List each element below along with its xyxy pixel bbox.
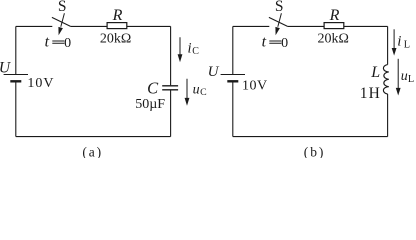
resistor R (b) body xyxy=(324,23,344,29)
svg-text:t: t xyxy=(45,34,50,51)
svg-text:i: i xyxy=(397,34,401,50)
svg-text:L: L xyxy=(370,64,380,81)
wire b: top middle segment xyxy=(287,25,324,27)
svg-text:t: t xyxy=(262,34,267,51)
svg-text:L: L xyxy=(404,40,410,51)
resistor R (a) body xyxy=(107,23,127,29)
svg-text:(b): (b) xyxy=(304,145,325,158)
wire b: left vertical lower xyxy=(232,81,234,136)
svg-text:(a): (a) xyxy=(82,145,103,158)
inductor L (b) coil xyxy=(383,65,388,94)
svg-text:0: 0 xyxy=(64,36,71,51)
wire b: top right segment xyxy=(344,25,388,27)
wire a: right vertical lower xyxy=(170,90,172,137)
svg-text:R: R xyxy=(112,7,123,24)
svg-text:S: S xyxy=(58,0,67,15)
battery U (a) short plate xyxy=(10,80,21,82)
wire b: top-left segment xyxy=(233,25,269,27)
capacitor C (a) bottom plate xyxy=(162,89,178,91)
voltage arrow uC shaft xyxy=(186,79,188,99)
current arrow iL shaft xyxy=(393,29,395,48)
svg-text:L: L xyxy=(408,74,414,85)
svg-text:i: i xyxy=(188,40,192,56)
voltage arrow uL shaft xyxy=(397,59,399,89)
wire a: left vertical upper xyxy=(15,26,17,74)
switch S (b) closing arrow head xyxy=(275,27,280,35)
current arrow iC shaft xyxy=(179,37,181,55)
svg-text:20kΩ: 20kΩ xyxy=(318,32,349,47)
battery U (a) long plate xyxy=(4,74,28,76)
current arrow iC head xyxy=(178,54,183,62)
svg-text:50µF: 50µF xyxy=(135,97,165,112)
svg-text:C: C xyxy=(192,46,199,57)
wire b: right vertical lower xyxy=(387,94,389,137)
svg-text:u: u xyxy=(401,69,408,84)
wire b: left vertical upper xyxy=(232,26,234,74)
svg-text:1H: 1H xyxy=(360,85,381,102)
switch S (b) closing arrow shaft xyxy=(278,13,282,26)
wire a: top right segment xyxy=(127,25,171,27)
svg-text:10V: 10V xyxy=(242,78,268,93)
svg-text:0: 0 xyxy=(281,36,288,51)
wire a: bottom xyxy=(16,136,171,138)
wire a: top middle segment xyxy=(70,25,107,27)
svg-text:20kΩ: 20kΩ xyxy=(100,32,131,47)
switch S (a) closing arrow shaft xyxy=(61,13,65,26)
svg-text:C: C xyxy=(200,87,207,98)
wire a: left vertical lower xyxy=(15,81,17,136)
switch S (a) closing arrow head xyxy=(58,27,63,35)
battery U (b) long plate xyxy=(221,74,245,76)
voltage arrow uL head xyxy=(396,88,401,96)
wire b: bottom xyxy=(233,136,388,138)
svg-text:10V: 10V xyxy=(27,76,54,91)
current arrow iL head xyxy=(392,48,397,56)
svg-text:U: U xyxy=(208,64,220,80)
svg-text:R: R xyxy=(329,7,340,24)
svg-text:C: C xyxy=(147,79,159,98)
voltage arrow uC head xyxy=(185,98,190,106)
wire a: top-left segment xyxy=(16,25,53,27)
wire b: right vertical upper xyxy=(387,26,389,64)
svg-text:u: u xyxy=(193,82,200,97)
switch S (a) blade xyxy=(52,17,70,26)
svg-text:S: S xyxy=(275,0,284,15)
battery U (b) short plate xyxy=(227,80,238,82)
wire a: right vertical upper xyxy=(170,26,172,85)
switch S (b) blade xyxy=(269,17,287,26)
capacitor C (a) top plate xyxy=(162,85,178,87)
